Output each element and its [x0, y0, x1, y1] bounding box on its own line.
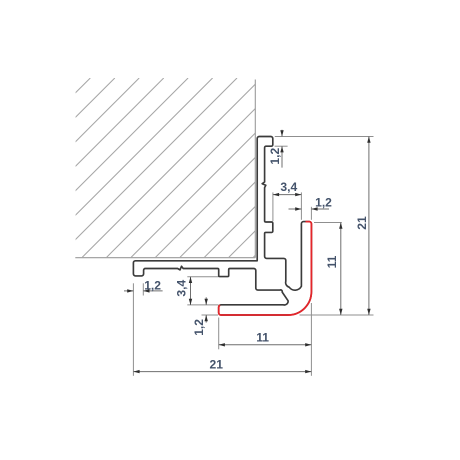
dimension 21 right arrows [367, 137, 370, 143]
dimension 1,2 hook line [124, 290, 163, 292]
dimension 3,4 top line [273, 194, 302, 196]
svg-text:1,2: 1,2 [192, 319, 206, 336]
dimension 21 right line [368, 137, 370, 316]
svg-text:1,2: 1,2 [268, 148, 282, 165]
extension line leg top surface [187, 304, 218, 306]
dimension 21 bottom line [133, 371, 311, 373]
svg-text:21: 21 [355, 216, 369, 230]
dimension 1,2 top vertical line [281, 130, 283, 168]
extension line angle top [314, 222, 342, 224]
dimension 1,2 leg-thickness arrows [205, 299, 208, 305]
dimension 3,4 top arrows [273, 193, 279, 196]
dimension 11 bottom arrows [219, 343, 225, 346]
svg-text:11: 11 [256, 330, 269, 344]
extension line hook outer left [132, 283, 134, 376]
dimension 3,4 left line [190, 277, 192, 305]
extension line angle outer right (down) [310, 303, 312, 376]
svg-text:3,4: 3,4 [280, 180, 297, 194]
highlighted angle profile (red outer face) [219, 222, 312, 315]
extension line bottom tab face [187, 276, 218, 278]
profile outline [133, 137, 311, 316]
extension line lip step [275, 145, 288, 147]
extension line tab face [272, 192, 274, 221]
dimension 11 right arrows [339, 223, 342, 229]
extension line hook inner [142, 283, 144, 295]
dimension 3,4 left arrows [189, 277, 192, 283]
extension line angle outer face [310, 207, 312, 220]
svg-text:11: 11 [325, 255, 339, 268]
dimension 1,2 leg-thickness line [205, 297, 207, 322]
wall bottom edge [75, 257, 255, 259]
svg-text:3,4: 3,4 [174, 280, 188, 297]
dimension 1,2 hook arrows [127, 289, 133, 292]
dimension 11 right line [340, 223, 342, 316]
dimension 1,2 wall-thickness line [289, 208, 330, 210]
dimension 21 bottom arrows [133, 370, 139, 373]
extension line leg bottom surface left [202, 314, 219, 316]
extension line angle inner face [300, 192, 302, 219]
svg-text:1,2: 1,2 [144, 278, 161, 292]
extension line angle leg left end [218, 318, 220, 350]
dimension 11 bottom line [219, 344, 312, 346]
extension line angle bottom (right) [300, 314, 374, 316]
extension line top edge (for 1,2 and 21) [275, 136, 374, 138]
wall right edge [254, 80, 256, 258]
svg-text:21: 21 [209, 358, 223, 372]
wall hatch [0, 78, 433, 257]
dimension 1,2 wall-thickness arrows [295, 207, 301, 210]
svg-text:1,2: 1,2 [315, 196, 332, 210]
dimension 1,2 top arrows [280, 130, 283, 136]
